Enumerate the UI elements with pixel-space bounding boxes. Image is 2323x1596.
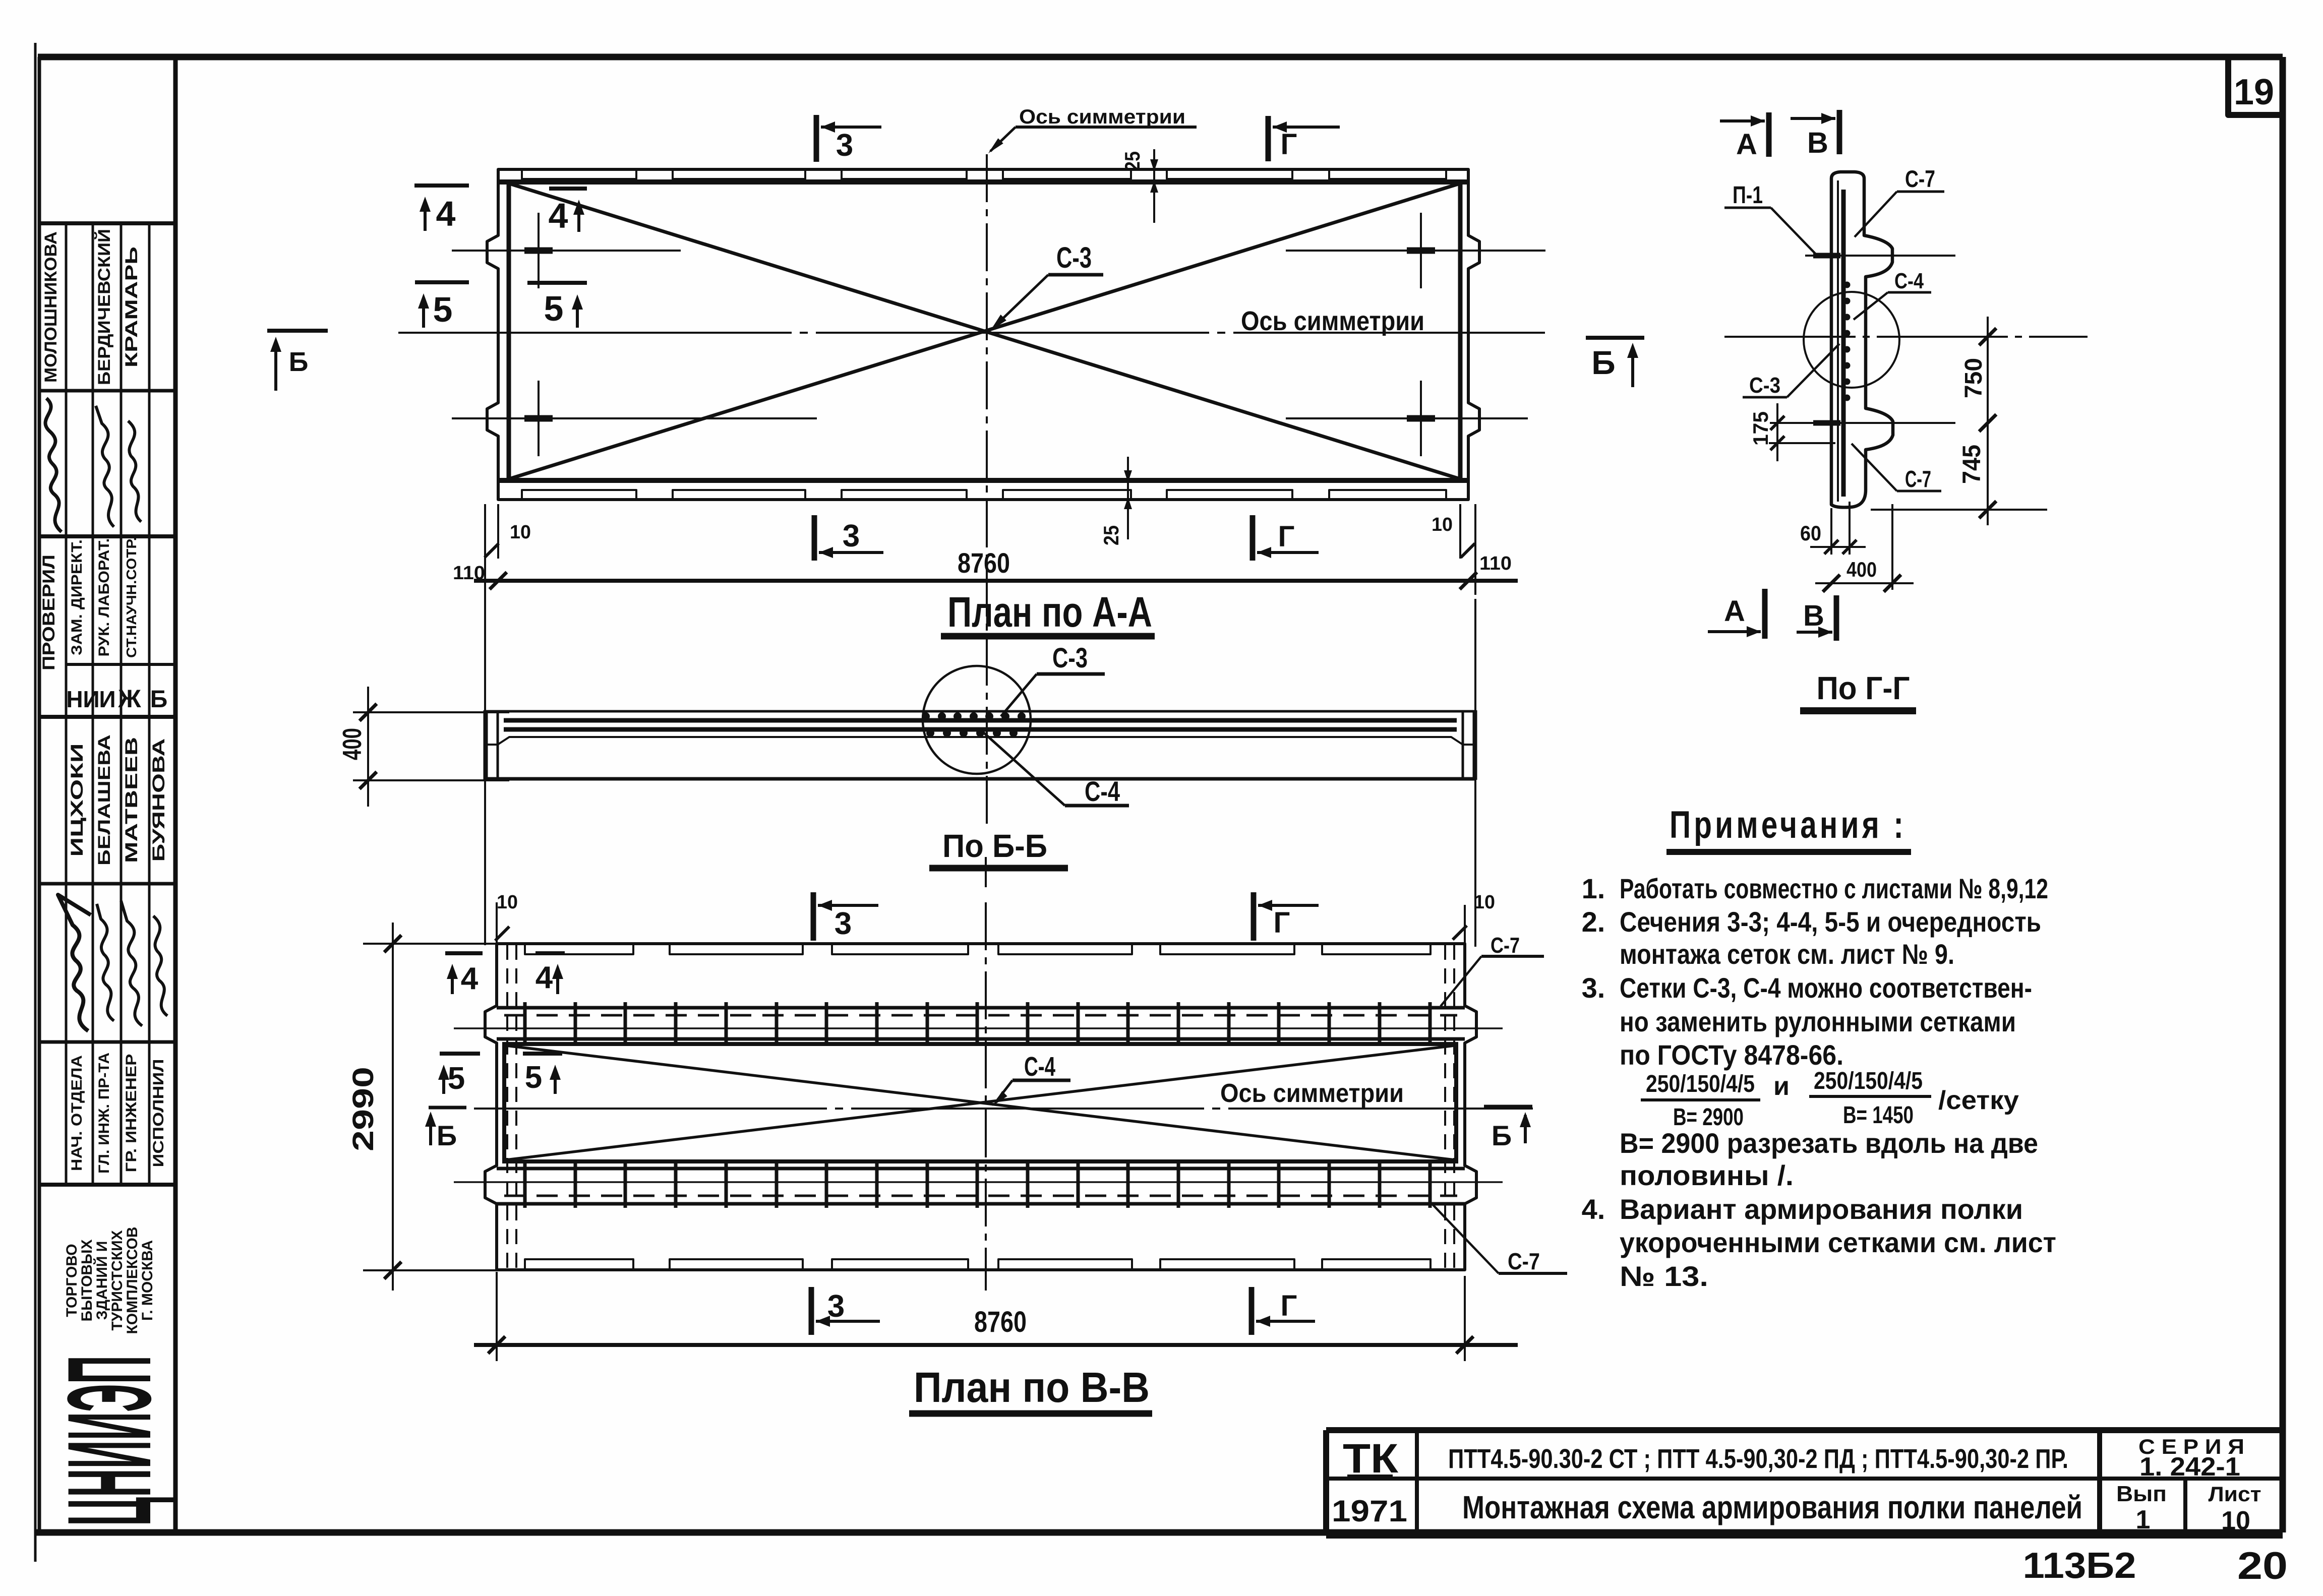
plan A-A anchor line bottom-left xyxy=(452,417,817,419)
svg-text:План по В-В: План по В-В xyxy=(914,1364,1150,1411)
svg-text:но заменить рулонными сетками: но заменить рулонными сетками xyxy=(1620,1006,2016,1037)
section mark 5 inner left xyxy=(527,281,587,285)
svg-text:Примечания :: Примечания : xyxy=(1670,804,1907,846)
section mark 3 top xyxy=(814,115,819,162)
stamp signatures row 2 xyxy=(58,895,91,1031)
svg-text:Б: Б xyxy=(1492,1120,1512,1151)
plan A-A anchor line bottom-right xyxy=(1286,417,1528,419)
svg-text:Г: Г xyxy=(1281,128,1297,161)
svg-text:С-4: С-4 xyxy=(1024,1052,1055,1082)
plan A-A outer contour xyxy=(487,169,1479,500)
svg-text:4: 4 xyxy=(535,960,553,995)
dimension 400 section G-G xyxy=(1891,504,1893,590)
svg-text:5: 5 xyxy=(433,290,453,329)
dimension 8760 plan V-V xyxy=(496,1272,498,1361)
svg-text:План по А-А: План по А-А xyxy=(947,588,1152,636)
svg-text:Вып: Вып xyxy=(2116,1482,2167,1506)
svg-text:Г. МОСКВА: Г. МОСКВА xyxy=(139,1240,156,1321)
svg-text:10: 10 xyxy=(1432,514,1453,535)
svg-text:С-7: С-7 xyxy=(1905,466,1931,492)
svg-text:8760: 8760 xyxy=(974,1306,1027,1338)
svg-text:ГЛ. ИНЖ. ПР-ТА: ГЛ. ИНЖ. ПР-ТА xyxy=(96,1053,112,1174)
svg-text:Ж: Ж xyxy=(117,685,141,713)
section G-G loop bar P-1 top xyxy=(1813,253,1840,259)
svg-text:по ГОСТу 8478-66.: по ГОСТу 8478-66. xyxy=(1620,1039,1843,1071)
dimension 10 top-left plan V-V xyxy=(496,902,498,944)
sheet border frame xyxy=(34,43,37,1562)
section B-B dowel dots lower xyxy=(926,729,934,737)
svg-text:/сетку: /сетку xyxy=(1938,1086,2019,1115)
svg-text:250/150/4/5: 250/150/4/5 xyxy=(1646,1071,1755,1097)
section G-G flange inner face xyxy=(1837,180,1839,502)
svg-text:ЗДАНИЙ И: ЗДАНИЙ И xyxy=(93,1241,110,1320)
svg-text:3.: 3. xyxy=(1582,972,1605,1004)
left stamp column xyxy=(38,57,41,1532)
svg-text:В= 2900 разрезать вдоль на две: В= 2900 разрезать вдоль на две xyxy=(1620,1127,2038,1159)
svg-text:10: 10 xyxy=(510,522,531,543)
section mark 5 inner left plan V-V xyxy=(523,1052,562,1056)
svg-text:Монтажная схема армирования по: Монтажная схема армирования полки панеле… xyxy=(1462,1489,2082,1525)
section B-B mesh chords xyxy=(504,718,1457,723)
svg-text:РУК. ЛАБОРАТ.: РУК. ЛАБОРАТ. xyxy=(96,538,112,657)
plan V-V diagonal braces xyxy=(506,1046,1455,1160)
plan V-V vertical axis line xyxy=(985,902,987,1291)
svg-text:400: 400 xyxy=(1847,558,1877,581)
svg-text:С-7: С-7 xyxy=(1905,165,1935,192)
svg-text:25: 25 xyxy=(1120,151,1144,171)
plan V-V horizontal axis line xyxy=(474,1108,1533,1110)
svg-text:175: 175 xyxy=(1749,411,1772,446)
svg-text:20: 20 xyxy=(2237,1545,2288,1587)
svg-text:А: А xyxy=(1724,595,1745,628)
svg-text:С-3: С-3 xyxy=(1749,373,1780,398)
svg-text:В= 1450: В= 1450 xyxy=(1843,1102,1914,1129)
section mark B left plan V-V xyxy=(429,1106,466,1110)
plan V-V bottom slot row xyxy=(525,1259,633,1269)
plan A-A bottom slot row xyxy=(522,490,636,499)
svg-text:Сечения 3-3; 4-4, 5-5 и очеред: Сечения 3-3; 4-4, 5-5 и очередность xyxy=(1620,906,2041,938)
svg-text:БУЯНОВА: БУЯНОВА xyxy=(149,739,168,862)
section G-G lug axis top xyxy=(1805,255,1955,257)
section B-B detail circle xyxy=(923,666,1031,774)
svg-text:Ось симметрии: Ось симметрии xyxy=(1241,306,1424,336)
svg-text:и: и xyxy=(1773,1072,1790,1101)
plan V-V mesh C-7 dashed edge right xyxy=(1444,945,1446,1269)
svg-text:БЕЛАШЕВА: БЕЛАШЕВА xyxy=(95,734,114,866)
svg-text:1971: 1971 xyxy=(1332,1494,1407,1528)
svg-text:Г: Г xyxy=(1278,520,1295,553)
section mark 4 inner left plan V-V xyxy=(535,951,565,955)
section G-G horizontal axis xyxy=(1724,336,2088,338)
section mark 3 top plan V-V xyxy=(811,892,816,941)
svg-text:1.: 1. xyxy=(1582,873,1605,904)
svg-text:250/150/4/5: 250/150/4/5 xyxy=(1814,1068,1923,1094)
svg-text:3: 3 xyxy=(835,906,852,941)
section mark V bottom xyxy=(1834,595,1839,641)
svg-text:монтажа сеток см. лист № 9.: монтажа сеток см. лист № 9. xyxy=(1620,938,1954,970)
section B-B panel left end xyxy=(484,710,488,780)
svg-text:ГР. ИНЖЕНЕР: ГР. ИНЖЕНЕР xyxy=(123,1054,140,1173)
svg-text:8760: 8760 xyxy=(958,547,1010,579)
sheet number box 19 xyxy=(2228,60,2280,115)
svg-text:5: 5 xyxy=(448,1061,465,1096)
dimension 10 top-right plan V-V xyxy=(1464,905,1466,944)
plan A-A top slot row xyxy=(522,170,636,179)
section B-B flange soffit xyxy=(498,737,1463,745)
svg-text:половины /.: половины /. xyxy=(1620,1159,1794,1191)
svg-text:10: 10 xyxy=(2221,1506,2250,1536)
svg-text:С-7: С-7 xyxy=(1508,1248,1540,1274)
section G-G lug axis bottom xyxy=(1770,422,1955,424)
svg-text:4: 4 xyxy=(461,961,479,996)
section mark 3 bottom plan V-V xyxy=(809,1287,814,1335)
svg-text:В: В xyxy=(1807,127,1828,159)
svg-text:5: 5 xyxy=(544,289,564,328)
svg-text:С-4: С-4 xyxy=(1894,269,1924,293)
section mark 4 inner left xyxy=(549,187,587,191)
section mark V top xyxy=(1837,110,1842,154)
plan V-V mesh C-7 dashed edge left xyxy=(506,945,508,1269)
svg-text:3: 3 xyxy=(827,1289,845,1324)
svg-text:В= 2900: В= 2900 xyxy=(1673,1104,1744,1131)
svg-text:Лист: Лист xyxy=(2209,1482,2261,1506)
section mark 5 outer left xyxy=(415,280,469,284)
svg-text:ИСПОЛНИЛ: ИСПОЛНИЛ xyxy=(150,1059,167,1168)
svg-text:И: И xyxy=(99,686,115,712)
dimension 10 / 110 bottom-right xyxy=(1474,504,1476,595)
section G-G dowel dots xyxy=(1844,282,1851,288)
svg-text:4: 4 xyxy=(549,196,568,235)
svg-text:Г: Г xyxy=(1281,1290,1297,1322)
dimension 2990 plan V-V xyxy=(363,943,497,945)
plan A-A bottom edge inner line xyxy=(498,478,1468,483)
svg-text:3: 3 xyxy=(836,128,853,163)
title block frame xyxy=(1326,1427,2283,1433)
svg-text:4.: 4. xyxy=(1582,1193,1605,1225)
svg-text:С-3: С-3 xyxy=(1056,241,1092,274)
svg-text:БЫТОВЫХ: БЫТОВЫХ xyxy=(79,1240,95,1322)
dimension 175 section G-G xyxy=(1776,403,1778,461)
svg-text:Ось симметрии: Ось симметрии xyxy=(1220,1079,1404,1108)
section mark G top xyxy=(1266,116,1271,161)
svg-text:В: В xyxy=(1803,599,1824,632)
svg-text:Б: Б xyxy=(150,686,168,713)
plan A-A top edge inner line xyxy=(498,179,1468,185)
plan A-A diagonal braces xyxy=(511,184,1458,478)
svg-text:ЗАМ. ДИРЕКТ.: ЗАМ. ДИРЕКТ. xyxy=(69,539,85,655)
svg-text:10: 10 xyxy=(497,892,518,913)
svg-text:Б: Б xyxy=(437,1120,457,1151)
section mark B left xyxy=(267,329,328,333)
dimension 750 745 section G-G xyxy=(1987,317,1989,525)
plan V-V outer contour xyxy=(485,944,1476,1270)
plan V-V top slot row xyxy=(525,945,633,954)
svg-text:Н: Н xyxy=(66,686,83,712)
section mark 4 outer left plan V-V xyxy=(445,951,483,955)
svg-text:С-7: С-7 xyxy=(1491,933,1520,958)
dimension 25 top xyxy=(1153,149,1155,223)
section G-G profile outline xyxy=(1831,172,1893,507)
svg-text:Работать совместно с листами №: Работать совместно с листами № 8,9,12 xyxy=(1620,873,2048,904)
svg-text:Б: Б xyxy=(1591,344,1615,381)
svg-text:КОМПЛЕКСОВ: КОМПЛЕКСОВ xyxy=(124,1226,141,1334)
svg-text:СТ.НАУЧН.СОТР.: СТ.НАУЧН.СОТР. xyxy=(124,537,139,658)
svg-text:По Б-Б: По Б-Б xyxy=(942,828,1047,864)
svg-text:2.: 2. xyxy=(1582,906,1605,938)
svg-text:25: 25 xyxy=(1099,525,1123,545)
section mark A bottom xyxy=(1762,589,1768,639)
svg-text:ИЦХОКИ: ИЦХОКИ xyxy=(68,744,87,857)
svg-text:3: 3 xyxy=(843,519,860,554)
section mark 4 outer left xyxy=(414,183,469,188)
svg-text:укороченными сетками см. лист: укороченными сетками см. лист xyxy=(1620,1226,2056,1258)
section B-B projection line left xyxy=(484,504,486,945)
svg-text:113Б2: 113Б2 xyxy=(2023,1546,2136,1586)
plan V-V top rib strip xyxy=(497,1006,1465,1010)
plan A-A vertical axis line xyxy=(986,154,988,827)
plan A-A anchor line top-right xyxy=(1286,250,1545,252)
svg-text:МОЛОШНИКОВА: МОЛОШНИКОВА xyxy=(41,231,61,383)
section mark G bottom plan V-V xyxy=(1249,1287,1255,1335)
section B-B panel top edge xyxy=(485,710,1476,713)
section mark 5 outer left plan V-V xyxy=(440,1052,480,1056)
section B-B panel bottom edge xyxy=(485,777,1476,781)
svg-text:10: 10 xyxy=(1474,892,1495,913)
plan V-V bottom rib strip xyxy=(497,1167,1465,1171)
svg-text:ЦНИИЭП: ЦНИИЭП xyxy=(43,1356,176,1526)
section G-G detail circle xyxy=(1804,292,1899,388)
section G-G loop bar bottom xyxy=(1813,420,1840,426)
svg-text:60: 60 xyxy=(1800,521,1821,545)
svg-text:ПТТ4.5-90.30-2 СТ ; ПТТ 4.5-9: ПТТ4.5-90.30-2 СТ ; ПТТ 4.5-90,30-2 ПД ;… xyxy=(1448,1444,2068,1474)
svg-text:400: 400 xyxy=(338,728,367,760)
svg-text:И: И xyxy=(83,686,99,712)
section G-G bottom extension xyxy=(1871,509,2047,511)
section mark A top xyxy=(1766,112,1772,157)
section mark B right of plan A-A xyxy=(1586,336,1644,340)
svg-text:5: 5 xyxy=(525,1060,542,1095)
plan V-V stitch ticks bottom strip xyxy=(523,1163,527,1208)
plan V-V inner rectangle xyxy=(504,1044,1456,1161)
section mark G bottom plan A-A xyxy=(1250,515,1256,561)
svg-text:Ось симметрии: Ось симметрии xyxy=(1019,106,1185,128)
svg-text:По Г-Г: По Г-Г xyxy=(1817,670,1910,706)
svg-text:Сетки С-3, С-4 можно соответст: Сетки С-3, С-4 можно соответствен- xyxy=(1620,972,2032,1004)
svg-text:ТОРГОВО: ТОРГОВО xyxy=(64,1244,80,1317)
plan A-A inner rectangle xyxy=(509,182,1460,480)
svg-text:4: 4 xyxy=(436,194,456,233)
svg-text:Вариант армирования полки: Вариант армирования полки xyxy=(1620,1193,2023,1225)
svg-text:МАТВЕЕВ: МАТВЕЕВ xyxy=(122,737,141,863)
section mark B right plan V-V xyxy=(1484,1105,1532,1109)
svg-text:КРАМАРЬ: КРАМАРЬ xyxy=(122,247,141,367)
svg-text:19: 19 xyxy=(2234,72,2274,112)
dimension 10 / 110 bottom-left xyxy=(484,504,486,595)
section mark 3 bottom plan A-A xyxy=(812,515,817,561)
svg-text:№ 13.: № 13. xyxy=(1620,1260,1708,1292)
section B-B dowel dots upper xyxy=(922,712,930,720)
svg-text:750: 750 xyxy=(1960,358,1987,398)
section B-B projection line right xyxy=(1474,599,1476,947)
plan V-V stitch ticks top strip xyxy=(523,1002,527,1046)
svg-text:Б: Б xyxy=(289,347,309,377)
plan A-A anchor line top-left xyxy=(452,250,681,252)
svg-text:1. 242-1: 1. 242-1 xyxy=(2139,1452,2240,1482)
svg-text:А: А xyxy=(1736,128,1757,161)
svg-text:745: 745 xyxy=(1957,445,1986,484)
svg-text:П-1: П-1 xyxy=(1733,182,1763,209)
section G-G mesh bar xyxy=(1841,190,1846,497)
svg-text:1: 1 xyxy=(2136,1505,2151,1534)
section mark G top plan V-V xyxy=(1251,892,1257,941)
svg-text:ПРОВЕРИЛ: ПРОВЕРИЛ xyxy=(39,555,58,670)
section B-B panel right end xyxy=(1473,710,1477,780)
svg-text:ТУРИСТСКИХ: ТУРИСТСКИХ xyxy=(109,1230,126,1330)
dimension 25 bottom xyxy=(1127,457,1129,539)
svg-text:С-4: С-4 xyxy=(1085,775,1120,807)
dimension 60 section G-G xyxy=(1830,508,1832,555)
dimension 8760 plan A-A xyxy=(474,579,1518,583)
stamp signatures row 1 xyxy=(45,398,62,532)
dimension 400 section B-B xyxy=(353,711,509,713)
svg-text:БЕРДИЧЕВСКИЙ: БЕРДИЧЕВСКИЙ xyxy=(94,229,114,385)
svg-text:С-3: С-3 xyxy=(1052,642,1088,673)
plan A-A horizontal axis line xyxy=(398,332,1545,334)
svg-text:НАЧ. ОТДЕЛА: НАЧ. ОТДЕЛА xyxy=(69,1055,85,1171)
svg-text:Г: Г xyxy=(1274,906,1290,939)
svg-text:2990: 2990 xyxy=(347,1067,380,1151)
svg-text:110: 110 xyxy=(1479,553,1512,574)
